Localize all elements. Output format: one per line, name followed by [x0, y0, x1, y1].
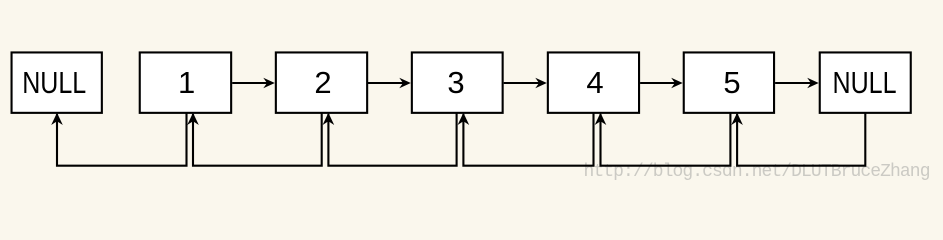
- svg-text:5: 5: [723, 65, 740, 100]
- svg-text:NULL: NULL: [22, 65, 86, 100]
- svg-text:4: 4: [586, 65, 603, 100]
- svg-text:1: 1: [178, 65, 195, 100]
- svg-text:2: 2: [314, 65, 331, 100]
- svg-text:3: 3: [447, 65, 464, 100]
- svg-text:NULL: NULL: [833, 65, 897, 100]
